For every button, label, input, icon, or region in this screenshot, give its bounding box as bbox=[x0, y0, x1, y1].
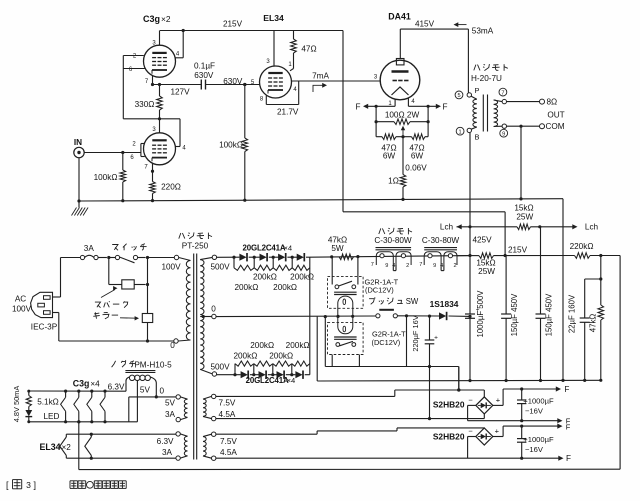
svg-text:1S1834: 1S1834 bbox=[430, 299, 459, 309]
svg-text:500V: 500V bbox=[210, 362, 230, 371]
svg-text:0: 0 bbox=[160, 387, 165, 396]
svg-text:EL34: EL34 bbox=[263, 13, 284, 23]
svg-text:215V: 215V bbox=[508, 245, 528, 254]
svg-text:215V: 215V bbox=[223, 20, 243, 29]
svg-text:127V: 127V bbox=[170, 88, 190, 97]
svg-text:5V: 5V bbox=[165, 399, 176, 408]
svg-text:47kΩ: 47kΩ bbox=[589, 314, 598, 333]
svg-text:200kΩ: 200kΩ bbox=[286, 341, 310, 350]
svg-text:F: F bbox=[564, 385, 569, 394]
svg-text:−: − bbox=[468, 395, 473, 404]
svg-text:OUT: OUT bbox=[547, 111, 564, 120]
svg-text:0: 0 bbox=[170, 341, 175, 350]
svg-text:6.3V: 6.3V bbox=[108, 382, 125, 391]
svg-text:+: + bbox=[496, 395, 501, 404]
svg-text:PM-H10-5: PM-H10-5 bbox=[134, 360, 172, 369]
svg-text:IN: IN bbox=[74, 138, 82, 147]
svg-text:25W: 25W bbox=[478, 267, 495, 276]
svg-text:7mA: 7mA bbox=[312, 72, 329, 81]
svg-text:LED: LED bbox=[44, 412, 60, 421]
svg-text:500V: 500V bbox=[210, 263, 230, 272]
svg-text:0: 0 bbox=[211, 305, 216, 314]
svg-text:200kΩ: 200kΩ bbox=[290, 272, 314, 281]
svg-text:200kΩ: 200kΩ bbox=[250, 341, 274, 350]
svg-text:100kΩ: 100kΩ bbox=[94, 173, 118, 182]
svg-text:53mA: 53mA bbox=[472, 27, 494, 36]
svg-text:(DC12V): (DC12V) bbox=[372, 338, 401, 347]
svg-text:B: B bbox=[475, 133, 480, 142]
svg-text:C-30-80W: C-30-80W bbox=[374, 236, 412, 245]
svg-text:5W: 5W bbox=[331, 244, 344, 253]
svg-text:47Ω: 47Ω bbox=[301, 45, 316, 54]
svg-text:200kΩ: 200kΩ bbox=[273, 283, 297, 292]
svg-text:−16V: −16V bbox=[525, 445, 544, 454]
svg-text:630V: 630V bbox=[223, 77, 243, 86]
svg-text:S2HB20: S2HB20 bbox=[433, 432, 465, 442]
svg-text:+: + bbox=[495, 427, 500, 436]
svg-text:2: 2 bbox=[406, 263, 409, 269]
svg-text:4.5A: 4.5A bbox=[220, 448, 237, 457]
svg-text:220µF 16V: 220µF 16V bbox=[411, 315, 420, 351]
svg-text:20GL2C41A: 20GL2C41A bbox=[246, 376, 289, 385]
svg-text:220Ω: 220Ω bbox=[161, 183, 181, 192]
svg-text:220kΩ: 220kΩ bbox=[570, 242, 594, 251]
svg-text:5V: 5V bbox=[140, 386, 151, 395]
svg-text:200kΩ: 200kΩ bbox=[233, 351, 257, 360]
svg-text:S2HB20: S2HB20 bbox=[433, 399, 465, 409]
svg-text:5: 5 bbox=[457, 93, 460, 99]
svg-text:+1000µF: +1000µF bbox=[523, 396, 554, 405]
svg-text:Lch: Lch bbox=[440, 223, 454, 232]
svg-text:×4: ×4 bbox=[284, 244, 293, 253]
svg-text:8Ω: 8Ω bbox=[547, 98, 558, 107]
svg-text:9: 9 bbox=[502, 132, 505, 138]
svg-text:−16V: −16V bbox=[525, 407, 544, 416]
svg-text:]: ] bbox=[34, 480, 37, 490]
svg-text:F: F bbox=[566, 454, 571, 463]
svg-text:F: F bbox=[442, 102, 447, 111]
svg-text:9: 9 bbox=[433, 263, 436, 269]
svg-text:4.5A: 4.5A bbox=[219, 410, 236, 419]
svg-text:1Ω: 1Ω bbox=[388, 177, 399, 186]
svg-text:F: F bbox=[355, 102, 360, 111]
svg-text:AC: AC bbox=[15, 295, 26, 304]
svg-text:25W: 25W bbox=[516, 213, 533, 222]
svg-text:100kΩ: 100kΩ bbox=[219, 141, 243, 150]
svg-text:630V: 630V bbox=[194, 71, 214, 80]
svg-text:6.3V: 6.3V bbox=[157, 437, 174, 446]
svg-text:6W: 6W bbox=[411, 152, 424, 161]
svg-text:150µF 450V: 150µF 450V bbox=[510, 293, 519, 336]
svg-text:EL34: EL34 bbox=[39, 442, 60, 452]
svg-text:DA41: DA41 bbox=[388, 12, 411, 22]
svg-text:1000µF 500V: 1000µF 500V bbox=[476, 290, 485, 338]
svg-text:20GL2C41A: 20GL2C41A bbox=[243, 244, 286, 253]
svg-text:415V: 415V bbox=[415, 20, 435, 29]
svg-text:×4: ×4 bbox=[90, 379, 100, 388]
svg-text:100Ω 2W: 100Ω 2W bbox=[385, 110, 420, 119]
svg-text:COM: COM bbox=[546, 122, 565, 131]
svg-text:4: 4 bbox=[392, 263, 395, 269]
svg-text:100V: 100V bbox=[161, 262, 181, 271]
svg-text:3A: 3A bbox=[165, 410, 176, 419]
svg-text:×2: ×2 bbox=[161, 14, 171, 24]
svg-text:C-30-80W: C-30-80W bbox=[422, 236, 460, 245]
svg-text:7.5V: 7.5V bbox=[220, 437, 237, 446]
svg-text:22µF 160V: 22µF 160V bbox=[568, 294, 577, 333]
svg-text:4: 4 bbox=[440, 263, 443, 269]
svg-text:3: 3 bbox=[26, 480, 31, 490]
svg-text:P: P bbox=[475, 86, 480, 95]
svg-text:+: + bbox=[434, 335, 438, 342]
svg-text:200kΩ: 200kΩ bbox=[253, 272, 277, 281]
svg-text:5.1kΩ: 5.1kΩ bbox=[37, 398, 59, 407]
svg-text:(DC12V): (DC12V) bbox=[365, 285, 394, 294]
svg-text:×4: ×4 bbox=[287, 376, 296, 385]
svg-text:2: 2 bbox=[453, 263, 456, 269]
svg-text:3A: 3A bbox=[84, 244, 95, 253]
svg-text:7: 7 bbox=[419, 262, 422, 268]
svg-text:C3g: C3g bbox=[73, 378, 90, 388]
svg-text:425V: 425V bbox=[472, 235, 492, 244]
svg-text:200kΩ: 200kΩ bbox=[234, 283, 258, 292]
svg-text:IEC-3P: IEC-3P bbox=[31, 323, 58, 332]
svg-text:Lch: Lch bbox=[585, 223, 599, 232]
svg-text:F: F bbox=[566, 423, 571, 432]
svg-text:6W: 6W bbox=[383, 152, 396, 161]
svg-text:PT-250: PT-250 bbox=[182, 242, 209, 251]
svg-text:SW: SW bbox=[406, 297, 419, 306]
svg-text:7: 7 bbox=[371, 262, 374, 268]
svg-text:200kΩ: 200kΩ bbox=[269, 351, 293, 360]
svg-text:+1000µF: +1000µF bbox=[523, 435, 554, 444]
svg-text:−: − bbox=[468, 427, 473, 436]
svg-text:15kΩ: 15kΩ bbox=[514, 204, 533, 213]
svg-text:7.5V: 7.5V bbox=[219, 399, 236, 408]
svg-text:1: 1 bbox=[459, 130, 462, 136]
svg-text:4.8V 50mA: 4.8V 50mA bbox=[12, 386, 21, 423]
svg-text:C3g: C3g bbox=[143, 14, 160, 24]
svg-text:3A: 3A bbox=[162, 448, 173, 457]
svg-text:0.06V: 0.06V bbox=[405, 163, 427, 172]
svg-text:H-20-7U: H-20-7U bbox=[471, 74, 502, 83]
svg-text:0.1µF: 0.1µF bbox=[194, 62, 215, 71]
svg-text:9: 9 bbox=[385, 263, 388, 269]
svg-text:21.7V: 21.7V bbox=[277, 108, 299, 117]
svg-text:100V: 100V bbox=[12, 305, 32, 314]
svg-text:150µF 450V: 150µF 450V bbox=[545, 293, 554, 336]
svg-text:330Ω: 330Ω bbox=[135, 100, 155, 109]
svg-text:7: 7 bbox=[501, 90, 504, 96]
